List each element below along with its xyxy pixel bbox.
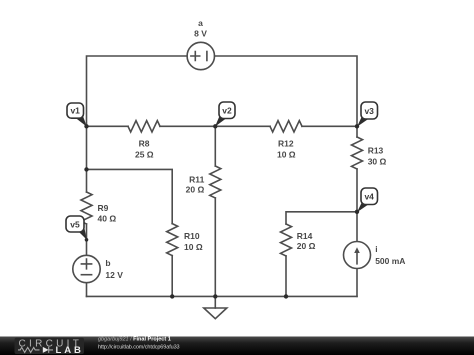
- wire branch junction to R10 top: [87, 169, 173, 223]
- svg-text:v3: v3: [364, 106, 374, 116]
- node label v2: [215, 102, 235, 127]
- svg-text:gbgarbuj921 / Final Project 1: gbgarbuj921 / Final Project 1: [98, 337, 171, 343]
- logo diode triangle: [43, 347, 49, 353]
- wire R11 bottom to rail: [214, 198, 216, 296]
- resistor R9: [81, 192, 92, 224]
- resistor R11: [210, 166, 221, 198]
- svg-text:R13: R13: [368, 146, 384, 156]
- junction dot R14 rail: [284, 294, 288, 298]
- wire source b bottom to rail: [86, 283, 88, 296]
- svg-text:12 V: 12 V: [105, 270, 123, 280]
- svg-text:R8: R8: [139, 139, 150, 149]
- svg-text:8 V: 8 V: [194, 28, 207, 38]
- current source i (500 mA): [344, 242, 371, 269]
- wire v2 to R11: [214, 126, 216, 166]
- svg-text:R14: R14: [297, 231, 313, 241]
- wire R9 bottom to source b: [86, 224, 88, 255]
- node label v5: [66, 216, 87, 240]
- wire v2 to R12: [215, 125, 270, 127]
- logo panel: [15, 338, 85, 354]
- wire v1 up and across to source a: [87, 56, 188, 126]
- resistor R10: [167, 224, 178, 256]
- junction dot R10 rail: [170, 294, 174, 298]
- wire R13 bottom to v4: [356, 169, 358, 212]
- resistor R8: [128, 121, 160, 132]
- node v3 junction dot: [355, 124, 359, 128]
- wire R14 bottom to rail: [285, 256, 287, 296]
- svg-text:a: a: [198, 18, 203, 28]
- wire v3 to R13: [356, 126, 358, 137]
- footer bar: [0, 337, 474, 355]
- ground: [204, 296, 227, 318]
- svg-text:20 Ω: 20 Ω: [297, 241, 316, 251]
- resistor R13: [352, 137, 363, 169]
- wire v4 to R14 top: [286, 212, 357, 224]
- svg-text:R12: R12: [278, 139, 294, 149]
- wire v1 down to R9: [86, 126, 88, 192]
- voltage source a (8 V): [187, 42, 214, 69]
- junction dot branch: [84, 167, 88, 171]
- svg-text:R9: R9: [98, 203, 109, 213]
- voltage source b (12 V): [73, 255, 100, 282]
- logo resistor-diode symbol: [18, 347, 53, 353]
- wire R10 bottom to rail: [171, 256, 173, 297]
- svg-text:25 Ω: 25 Ω: [135, 150, 154, 160]
- wire current source i to rail: [356, 269, 358, 296]
- wire R12 to v3: [302, 125, 357, 127]
- resistor R12: [270, 121, 302, 132]
- wire v1 to R8: [87, 125, 129, 127]
- svg-text:10 Ω: 10 Ω: [184, 242, 203, 252]
- svg-text:20 Ω: 20 Ω: [186, 185, 205, 195]
- resistor R14: [281, 224, 292, 256]
- svg-text:30 Ω: 30 Ω: [368, 156, 387, 166]
- node label v3: [357, 102, 378, 127]
- node v2 junction dot: [213, 124, 217, 128]
- svg-text:http://circuitlab.com/chtdcp69: http://circuitlab.com/chtdcp69afu33: [98, 345, 180, 351]
- svg-text:v2: v2: [222, 106, 232, 116]
- node v5 dot: [85, 238, 89, 242]
- node label v1: [67, 103, 87, 127]
- current source arrow head: [354, 247, 360, 253]
- svg-text:500 mA: 500 mA: [375, 256, 405, 266]
- svg-text:R11: R11: [189, 174, 204, 184]
- node v4 junction dot: [355, 210, 359, 214]
- wire v4 to current source i: [356, 212, 358, 241]
- svg-text:b: b: [105, 258, 110, 268]
- svg-text:R10: R10: [184, 231, 200, 241]
- svg-text:i: i: [375, 244, 377, 254]
- svg-text:v5: v5: [70, 219, 80, 229]
- svg-text:v1: v1: [70, 106, 80, 116]
- svg-text:v4: v4: [364, 192, 374, 202]
- node v1 junction dot: [84, 124, 88, 128]
- wire bottom rail: [87, 295, 358, 297]
- node label v4: [357, 188, 378, 212]
- wire source a right to v3: [215, 56, 357, 126]
- wire R8 to v2: [160, 125, 215, 127]
- svg-text:LAB: LAB: [56, 345, 84, 355]
- junction dot ground rail: [213, 294, 217, 298]
- svg-text:40 Ω: 40 Ω: [98, 214, 117, 224]
- svg-text:10 Ω: 10 Ω: [277, 150, 296, 160]
